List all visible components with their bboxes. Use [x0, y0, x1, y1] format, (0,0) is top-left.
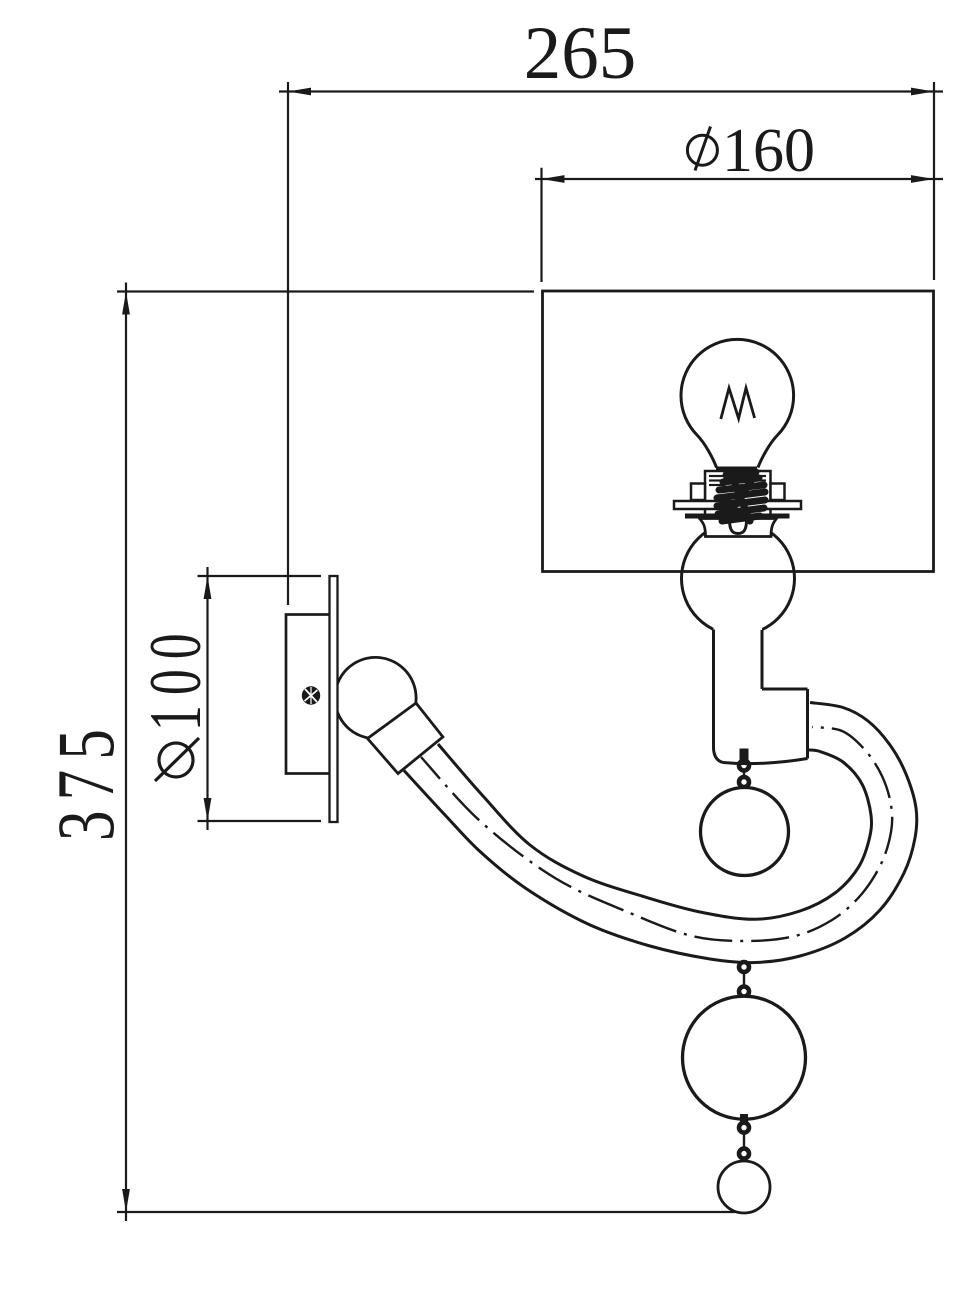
pivot ball at canopy [335, 657, 416, 738]
extension line top of 375 (shade top level) [117, 290, 534, 292]
elbow tube left line [714, 630, 724, 763]
svg-text:100: 100 [134, 623, 216, 731]
socket cup [700, 519, 777, 537]
dimension phi100 line [206, 567, 208, 830]
hanging ball 2 [683, 996, 806, 1119]
bulb filament W [721, 388, 755, 419]
dimension phi160 right arrow [911, 175, 934, 183]
dimension phi100 diameter symbol [159, 743, 193, 777]
socket right ear [771, 484, 785, 501]
dimension 265 right arrow [911, 88, 934, 96]
socket left ear [691, 484, 705, 501]
elbow tube right line [761, 630, 764, 689]
dimension phi160 line [535, 178, 943, 180]
bulb white fill and outline [681, 339, 794, 467]
socket inner cylinder lines [723, 472, 725, 487]
socket wide flange [674, 501, 801, 509]
dimension 265 line [279, 90, 943, 92]
extension line left of phi160 (shade left) [540, 168, 542, 282]
link ring a [739, 761, 749, 771]
socket top bar [716, 467, 757, 472]
link ring b [739, 1149, 749, 1159]
dimension phi160 diameter symbol [687, 135, 717, 165]
collar over pivot ball [368, 703, 443, 774]
lamp arm dash-dot centerline [421, 727, 892, 941]
hanging ball 3 [718, 1161, 770, 1213]
mounting screw [302, 686, 320, 704]
dimension 375 line [125, 283, 127, 1222]
extension line bottom of 375 [117, 1211, 735, 1213]
dimension phi100 bottom arrow [204, 798, 212, 821]
lamp arm outer boundary (lower sweep into outer curl) [404, 703, 917, 963]
dimension 375 top arrow [122, 292, 130, 315]
lampshade rectangle [543, 291, 934, 572]
wall plate (side view) [330, 576, 338, 822]
wall canopy box [286, 615, 331, 774]
link under arm bottom: ring a [739, 962, 749, 972]
extension line top of phi100 (plate top) [198, 575, 322, 577]
hanging ball 1 [701, 788, 789, 876]
socket base rect [705, 471, 771, 515]
extension line right of 265 (shade right) [933, 82, 935, 280]
ball joint sphere under shade [682, 522, 795, 635]
socket center tip [730, 520, 747, 534]
dimension phi100 top arrow [204, 576, 212, 599]
lamp arm inner boundary (upper sweep into inner curl) [438, 744, 872, 919]
socket thread ticks [709, 476, 766, 485]
extension line bottom of phi100 (plate bottom) [198, 820, 322, 822]
dimension 265 left arrow [288, 88, 311, 96]
link between elbow and ball1: tab [740, 749, 749, 763]
dimension phi160 left arrow [542, 175, 565, 183]
svg-text:375: 375 [41, 719, 132, 841]
socket lower bar [685, 514, 790, 519]
svg-text:265: 265 [524, 12, 637, 95]
link ring b [739, 987, 749, 997]
link under ball2: tab [740, 1114, 748, 1122]
elbow right face [806, 689, 809, 759]
socket spring scribble [717, 472, 765, 521]
elbow tube white fill [714, 600, 808, 764]
elbow bottom edge [723, 759, 808, 764]
dimension 375 bottom arrow [122, 1189, 130, 1212]
extension line left of 265 (wall plane) [287, 82, 289, 605]
svg-text:160: 160 [722, 117, 815, 185]
elbow step top [762, 688, 808, 691]
link ring a [739, 1123, 749, 1133]
link ring b [739, 777, 749, 787]
